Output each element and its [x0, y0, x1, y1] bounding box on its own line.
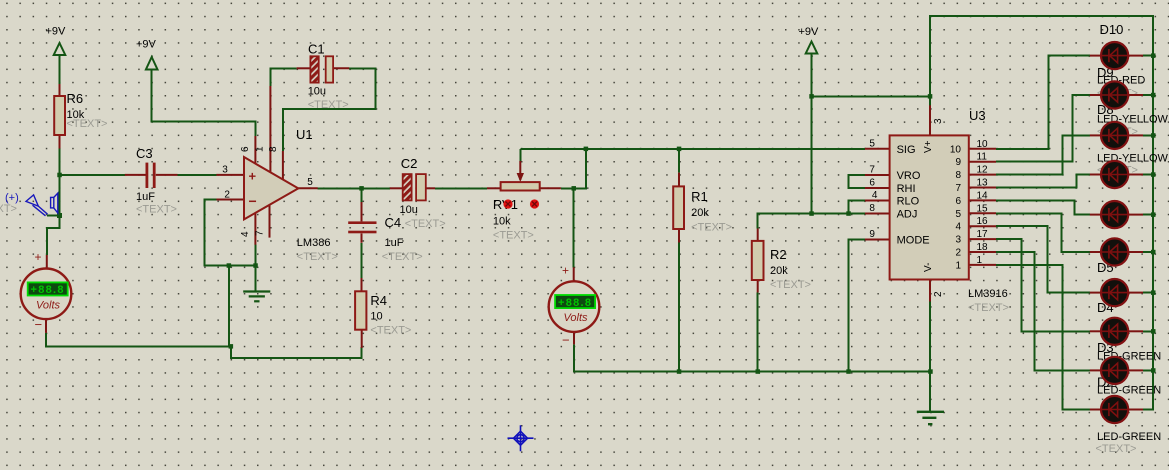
svg-text:RHI: RHI — [897, 183, 916, 195]
svg-text:1: 1 — [955, 260, 961, 271]
wire: VM2 top drop — [573, 188, 575, 267]
svg-text:D10: D10 — [1100, 22, 1124, 37]
svg-text:Volts: Volts — [564, 312, 589, 324]
svg-text:<TEXT>: <TEXT> — [1096, 443, 1137, 455]
svg-text:C2: C2 — [401, 156, 418, 171]
svg-text:C4: C4 — [385, 215, 402, 230]
origin marker (blue crosshair) — [508, 425, 534, 451]
resistor R1 — [673, 173, 732, 243]
svg-text:LM386: LM386 — [297, 237, 331, 249]
ground (op-amp) — [243, 292, 270, 302]
svg-text:R2: R2 — [770, 247, 787, 262]
power +9V #3 — [799, 26, 820, 54]
wire: R1 bottom to rail — [678, 243, 680, 372]
power +9V #1 — [46, 26, 67, 56]
wire: net 18 to LED9 — [996, 252, 1090, 370]
wire: VM1 bottom to pin2-loop node — [46, 333, 231, 346]
svg-text:1uF: 1uF — [136, 191, 155, 203]
svg-text:3: 3 — [933, 118, 944, 124]
wire: net 1 to LED10 — [996, 265, 1090, 410]
LED ref/name labels (drawn before circles so circles occlude) — [1096, 22, 1169, 455]
svg-text:+88.8: +88.8 — [558, 297, 591, 309]
LED D9 — [1090, 81, 1143, 108]
svg-text:17: 17 — [977, 229, 989, 240]
wire: V+ riser to top rail — [930, 16, 1153, 97]
wire: +9V#1 stem — [59, 55, 61, 84]
svg-text:<TEXT>: <TEXT> — [405, 218, 446, 230]
svg-text:<TEXT>: <TEXT> — [297, 251, 338, 263]
svg-text:5: 5 — [869, 138, 875, 149]
svg-text:1uF: 1uF — [385, 237, 404, 249]
svg-text:<TEXT>: <TEXT> — [968, 302, 1009, 314]
wire: LED cathode bus — [1143, 16, 1153, 410]
svg-text:13: 13 — [977, 178, 989, 189]
capacitor C2 — [390, 156, 446, 230]
svg-text:+: + — [35, 250, 42, 264]
wire: R6 vertical through C3 node down to mic node — [47, 149, 60, 256]
IC U3 LM3916 — [865, 105, 1009, 314]
wire: step to R4 bottom — [231, 346, 362, 358]
wire: pin5 output to C2 — [318, 187, 390, 189]
svg-text:10: 10 — [977, 139, 989, 150]
svg-text:14: 14 — [977, 190, 989, 201]
wire: LED right leads to bus — [1143, 55, 1153, 57]
svg-text:9: 9 — [955, 157, 961, 168]
svg-text:1: 1 — [977, 255, 983, 266]
svg-text:16: 16 — [977, 216, 989, 227]
svg-text:3: 3 — [955, 235, 961, 246]
wire: net 17 to LED8 — [996, 239, 1090, 331]
svg-text:−: − — [562, 333, 570, 348]
svg-text:C1: C1 — [308, 42, 325, 57]
svg-text:<TEXT>: <TEXT> — [370, 325, 411, 337]
wire: net 11 to LED2 — [996, 95, 1090, 162]
svg-text:6: 6 — [240, 146, 251, 152]
LED D6 — [1090, 201, 1143, 228]
svg-text:7: 7 — [869, 165, 875, 176]
LED D10 — [1090, 42, 1143, 69]
svg-text:<TEXT>: <TEXT> — [382, 251, 423, 263]
wire: mic stub — [47, 214, 60, 216]
wire: opamp pin2 loop — [204, 200, 255, 266]
svg-text:V-: V- — [923, 263, 934, 272]
LED D4 — [1090, 279, 1143, 306]
svg-text:<TEXT>: <TEXT> — [493, 230, 534, 242]
svg-text:U3: U3 — [969, 108, 986, 123]
svg-text:<TEXT>: <TEXT> — [308, 99, 349, 111]
wire: +9V#3 stem down to ADJ node — [811, 54, 813, 214]
svg-text:7: 7 — [955, 183, 961, 194]
resistor R6 — [54, 84, 107, 149]
svg-text:20k: 20k — [691, 207, 709, 219]
resistor R4 — [355, 278, 411, 348]
svg-text:MODE: MODE — [897, 235, 930, 247]
LED D8 — [1090, 122, 1143, 149]
wire: MODE down to rail — [849, 240, 865, 372]
capacitor C3 — [125, 146, 178, 216]
svg-text:4: 4 — [872, 190, 878, 201]
svg-text:20k: 20k — [770, 265, 788, 277]
svg-text:11: 11 — [977, 152, 988, 163]
wire: VM2 bottom to ground rail — [574, 344, 930, 371]
svg-text:12: 12 — [977, 165, 989, 176]
svg-text:10u: 10u — [308, 86, 326, 98]
svg-text:Volts: Volts — [36, 300, 61, 312]
svg-text:RLO: RLO — [897, 196, 920, 208]
wire: RLO link — [849, 201, 865, 214]
svg-text:10: 10 — [370, 311, 382, 323]
svg-text:U1: U1 — [296, 127, 313, 142]
svg-text:10u: 10u — [400, 204, 418, 216]
wire: RV1 right terminal up to SIG rail — [561, 149, 586, 189]
svg-text:<TEXT>: <TEXT> — [691, 222, 732, 234]
power +9V #2 — [136, 39, 158, 70]
wire: C2 right to RV1 left — [435, 187, 487, 189]
wire: R2 bottom to rail — [757, 293, 759, 372]
LED D2 — [1090, 357, 1143, 384]
svg-text:10: 10 — [950, 144, 962, 155]
svg-text:1: 1 — [255, 146, 266, 152]
svg-text:6: 6 — [955, 196, 961, 207]
svg-text:<TEXT>: <TEXT> — [0, 203, 17, 215]
wire: RV1 wiper up — [519, 149, 521, 161]
wire: net 15 to LED6 — [996, 213, 1090, 252]
svg-text:+9V: +9V — [799, 26, 820, 38]
LED D7 — [1090, 161, 1143, 188]
svg-text:2: 2 — [955, 248, 961, 259]
svg-text:SIG: SIG — [897, 144, 916, 156]
svg-text:8: 8 — [955, 170, 961, 181]
svg-text:2: 2 — [224, 190, 230, 201]
wire: net 13 to LED4 — [996, 175, 1090, 188]
svg-text:6: 6 — [869, 178, 875, 189]
LED D3 — [1090, 318, 1143, 345]
svg-text:<TEXT>: <TEXT> — [136, 204, 177, 216]
wire: net 16 to LED7 — [996, 226, 1090, 292]
microphone (blue) — [26, 193, 58, 216]
svg-text:8: 8 — [268, 146, 279, 152]
svg-text:R1: R1 — [691, 189, 708, 204]
svg-text:4: 4 — [955, 222, 961, 233]
wire: U3 V- to rail and ground stem — [929, 302, 931, 412]
svg-text:VRO: VRO — [897, 170, 921, 182]
svg-text:18: 18 — [977, 242, 989, 253]
resistor R2 — [752, 229, 811, 293]
svg-text:3: 3 — [222, 165, 228, 176]
potentiometer RV1 — [487, 161, 561, 242]
svg-text:2: 2 — [933, 291, 944, 297]
svg-text:15: 15 — [977, 203, 989, 214]
capacitor C1 — [297, 42, 350, 112]
svg-text:LED-GREEN: LED-GREEN — [1097, 385, 1161, 397]
svg-text:9: 9 — [869, 229, 875, 240]
svg-text:10k: 10k — [493, 216, 511, 228]
wire: net 14 to LED5 — [996, 200, 1090, 214]
LED D5 — [1090, 238, 1143, 265]
svg-text:ADJ: ADJ — [897, 209, 918, 221]
svg-text:+: + — [249, 169, 257, 184]
svg-text:4: 4 — [240, 231, 251, 237]
wire: C1 right loop down to pin8 — [283, 68, 376, 151]
svg-text:C3: C3 — [136, 146, 153, 161]
svg-text:8: 8 — [869, 203, 875, 214]
svg-text:7: 7 — [255, 230, 266, 236]
svg-text:V+: V+ — [923, 140, 934, 153]
svg-text:R6: R6 — [67, 91, 84, 106]
svg-text:−: − — [249, 193, 257, 209]
wire: pin1 up to C1 left — [270, 68, 296, 86]
wire: +9V#2 stem to opamp pin6 — [152, 70, 256, 137]
svg-text:<TEXT>: <TEXT> — [67, 118, 108, 130]
svg-text:+9V: +9V — [136, 39, 157, 51]
LED D1 — [1090, 396, 1143, 423]
wire: C3 right to opamp pin3 — [178, 174, 217, 176]
capacitor C4 — [348, 202, 422, 263]
wire: SIG rail from RV1 wiper to U3 SIG — [520, 148, 865, 150]
voltmeter VM1 — [21, 250, 72, 333]
wire: net 10 to LED D10 — [996, 56, 1090, 149]
svg-text:5: 5 — [307, 177, 313, 188]
wire: pin4 to ground — [254, 245, 256, 292]
wire: net 12 to LED3 — [996, 135, 1090, 174]
op-amp U1 — [216, 86, 337, 263]
svg-text:LED-GREEN: LED-GREEN — [1097, 431, 1161, 443]
svg-text:<TEXT>: <TEXT> — [770, 279, 811, 291]
wire: C4 branch down to R4 top — [361, 188, 363, 202]
wire: +9V to U3 V+ — [812, 96, 931, 105]
svg-text:+9V: +9V — [46, 26, 67, 38]
svg-text:+88.8: +88.8 — [31, 284, 64, 296]
wire: R1 top from SIG rail — [678, 149, 680, 173]
ground (main rail) — [917, 412, 944, 424]
wire: branch down to VM1 rail — [228, 266, 230, 347]
svg-text:LM3916: LM3916 — [968, 288, 1008, 300]
svg-text:+: + — [562, 264, 569, 278]
wire: C3 left — [60, 174, 125, 176]
svg-text:5: 5 — [955, 209, 961, 220]
svg-text:R4: R4 — [370, 293, 387, 308]
voltmeter VM2 — [549, 264, 600, 348]
wire: VRO-RHI link — [849, 175, 865, 188]
wire: R2 top to ADJ node — [758, 214, 865, 229]
